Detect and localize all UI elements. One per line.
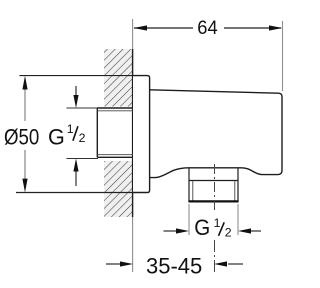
svg-text:64: 64 [197, 18, 218, 39]
svg-text:G: G [194, 215, 210, 240]
wire: wall surface line / extension (top gray part) [132, 19, 134, 50]
dimension G1/2 left : extension lines [67, 107, 99, 109]
body outline [150, 90, 282, 178]
svg-text:2: 2 [79, 131, 86, 145]
boss bottom edge (thick) [188, 200, 238, 202]
dimension 35-45 : arrows [106, 263, 121, 265]
svg-text:35-45: 35-45 [146, 253, 202, 278]
centerline of outlet (dash-dot) [214, 164, 216, 212]
wall surface line (black mid part) [132, 49, 134, 217]
dimension G1/2 bottom : extension lines (gray) [188, 204, 190, 235]
dimension O50 : vertical line + arrows [24, 89, 26, 180]
dimension G1/2 left : arrows (outside, pointing inward) [75, 86, 77, 96]
dimension 64 : extension line right (gray) [282, 21, 284, 91]
wall hatch lower patch [104, 161, 133, 217]
dimension G1/2 bottom : arrows [164, 230, 178, 232]
dimension 64 : line + arrows [134, 27, 281, 29]
outlet boss with G1/2 thread [189, 168, 238, 202]
escutcheon plate (side view) [133, 76, 150, 193]
svg-text:1: 1 [214, 216, 221, 230]
dimension O50 : extension lines [19, 75, 133, 77]
wall hatch upper patch [104, 49, 133, 107]
svg-text:2: 2 [225, 226, 232, 240]
boss thread inner lines [193, 181, 235, 202]
wall surface extension (bottom gray part) [132, 217, 134, 272]
svg-text:G: G [48, 125, 65, 150]
nipple thread inner lines [97, 111, 133, 155]
inlet nipple G1/2 (behind wall) [97, 108, 133, 157]
svg-text:1: 1 [67, 122, 74, 136]
svg-text:Ø50: Ø50 [4, 125, 39, 150]
